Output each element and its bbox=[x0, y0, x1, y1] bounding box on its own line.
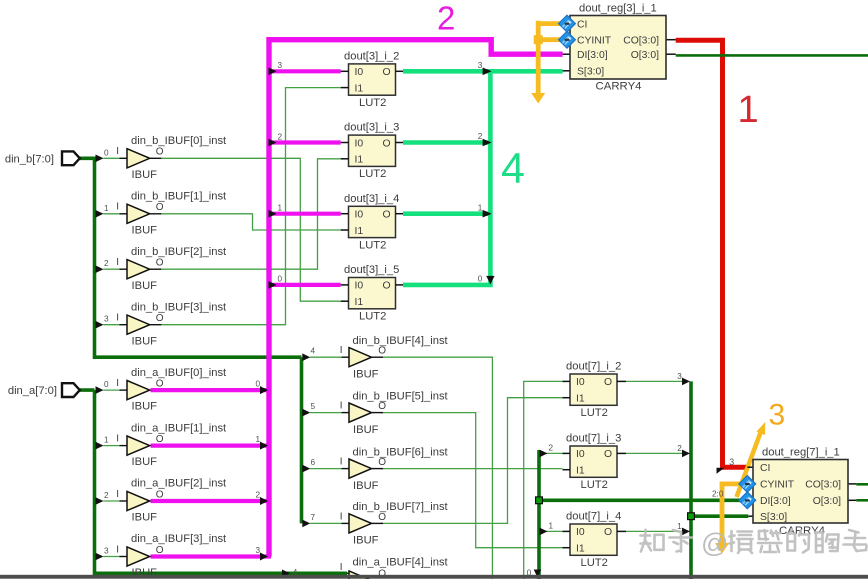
wire magenta din_a[0] IBUF output to bus bbox=[151, 388, 272, 392]
carry4 dout_reg[7]_i_1 bbox=[741, 447, 856, 538]
wire magenta din_a[3] IBUF output to bus bbox=[151, 554, 272, 558]
svg-text:O: O bbox=[378, 512, 386, 523]
svg-text:O: O bbox=[156, 434, 164, 445]
svg-text:I: I bbox=[116, 257, 119, 268]
yellow dangling arrowhead down bottom bbox=[715, 543, 729, 554]
wire din_b[6] net: IBUF[6] output to dout[7]_i_3 I1 bbox=[381, 468, 563, 470]
svg-text:I0: I0 bbox=[576, 449, 585, 460]
wire din_b[0] net: IBUF[0] output to dout[3]_i_5 I1 bbox=[161, 158, 341, 301]
svg-text:I1: I1 bbox=[576, 466, 585, 477]
LUT2 dout[7]_i_2 bbox=[563, 361, 627, 420]
junction square yellow bbox=[534, 35, 543, 44]
junction arrow din_a bus bit 0 bbox=[96, 386, 104, 394]
buffer din_b_IBUF[2]_inst bbox=[104, 246, 227, 292]
buffer din_b_IBUF[6]_inst bbox=[311, 446, 449, 491]
svg-text:din_b_IBUF[5]_inst: din_b_IBUF[5]_inst bbox=[353, 390, 449, 402]
svg-text:LUT2: LUT2 bbox=[359, 168, 386, 180]
wire DI[2:0] bus vertical from bottom bbox=[537, 450, 541, 579]
wire din_a[4] IBUF input stub along bottom bbox=[293, 572, 342, 574]
LUT2 dout[7]_i_3 bbox=[563, 433, 627, 492]
wire din_b[3] IBUF input stub bbox=[103, 324, 119, 326]
junction arrow din_a bus bit 1 bbox=[96, 442, 104, 450]
buffer din_a_IBUF[2]_inst bbox=[104, 478, 227, 524]
svg-text:dout[7]_i_2: dout[7]_i_2 bbox=[566, 361, 621, 373]
svg-text:O: O bbox=[378, 346, 386, 357]
wire dout[7]_i_4 output to S bus bbox=[626, 530, 684, 532]
svg-text:1: 1 bbox=[478, 203, 483, 212]
wire din_b bus vertical second IBUF column bbox=[300, 357, 304, 523]
svg-text:@: @ bbox=[701, 528, 728, 558]
svg-text:LUT2: LUT2 bbox=[359, 311, 386, 323]
svg-text:dout[7]_i_4: dout[7]_i_4 bbox=[566, 511, 621, 523]
wire red highlighted net: dout_reg[3]_i_1 CO to dout_reg[7]_i_1 CI bbox=[676, 40, 748, 467]
svg-text:O: O bbox=[156, 379, 164, 390]
svg-text:dout_reg[7]_i_1: dout_reg[7]_i_1 bbox=[762, 447, 840, 459]
junction arrow din_a bus bit 4 bottom bbox=[282, 570, 290, 578]
svg-text:I0: I0 bbox=[355, 138, 364, 149]
svg-text:2: 2 bbox=[256, 491, 261, 500]
junction square DI bus bbox=[536, 497, 543, 504]
wire dout[7]_i_2 output to S bus bbox=[626, 380, 684, 382]
junction arrows on magenta bus bbox=[260, 68, 277, 561]
wire spring green highlighted net: dout[3] LUT outputs to CARRY4 S input bbox=[403, 71, 563, 285]
svg-text:IBUF: IBUF bbox=[353, 368, 379, 380]
wire din_b[7] IBUF input stub bbox=[310, 522, 342, 524]
svg-text:IBUF: IBUF bbox=[132, 169, 158, 181]
svg-text:3: 3 bbox=[729, 457, 734, 467]
svg-text:din_b_IBUF[4]_inst: din_b_IBUF[4]_inst bbox=[353, 335, 449, 347]
svg-text:O: O bbox=[383, 138, 391, 149]
svg-text:IBUF: IBUF bbox=[132, 512, 158, 524]
junction arrow S bus dout[7]_i_2 output bbox=[682, 378, 690, 386]
svg-text:I1: I1 bbox=[355, 226, 364, 237]
svg-text:din_b[7:0]: din_b[7:0] bbox=[5, 153, 54, 165]
wire magenta highlighted net: din_a IBUF outputs bus to LUT I0 and CARRY4 DI bbox=[269, 40, 563, 557]
yellow dangling arrowhead down bbox=[531, 93, 545, 104]
wire magenta din_a[2] IBUF output to bus bbox=[151, 499, 272, 503]
junction arrow din_b bus bit 0 bbox=[96, 155, 104, 163]
svg-text:CI: CI bbox=[577, 19, 587, 30]
svg-text:S[3:0]: S[3:0] bbox=[760, 512, 787, 523]
svg-text:I0: I0 bbox=[355, 67, 364, 78]
wire din_a[7] net from below into dout[7]_i_2 I0 bbox=[524, 381, 563, 579]
svg-text:din_a_IBUF[3]_inst: din_a_IBUF[3]_inst bbox=[131, 533, 227, 545]
wire din_b[4] net: IBUF[4] output down to dout[7]_i_5 I1 (off-view) bbox=[381, 357, 492, 579]
svg-text:O: O bbox=[156, 313, 164, 324]
buffer din_b_IBUF[5]_inst bbox=[311, 390, 449, 435]
svg-text:din_a[7:0]: din_a[7:0] bbox=[8, 385, 57, 397]
svg-text:O: O bbox=[156, 545, 164, 556]
svg-text:5: 5 bbox=[311, 402, 316, 411]
svg-text:din_b_IBUF[7]_inst: din_b_IBUF[7]_inst bbox=[353, 501, 449, 513]
svg-text:IBUF: IBUF bbox=[353, 424, 379, 436]
svg-text:4: 4 bbox=[311, 347, 316, 356]
junction square S bus bbox=[688, 513, 695, 520]
svg-text:O: O bbox=[383, 67, 391, 78]
svg-text:O[3:0]: O[3:0] bbox=[631, 50, 659, 61]
svg-text:din_a_IBUF[4]_inst: din_a_IBUF[4]_inst bbox=[353, 557, 449, 569]
svg-text:I1: I1 bbox=[355, 155, 364, 166]
junction arrow din_b bus bit 6 bbox=[302, 465, 310, 473]
junction arrow DI bus bottom bbox=[534, 570, 542, 578]
wire branch DI bus to dout[7]_i_3 I0 bbox=[546, 452, 563, 454]
wire magenta branch to dout[3]_i_3 I0 bbox=[267, 140, 341, 144]
svg-text:1: 1 bbox=[677, 522, 682, 531]
wire magenta branch to dout[3]_i_2 I0 bbox=[267, 69, 341, 73]
svg-text:I1: I1 bbox=[576, 544, 585, 555]
input port din_a[7:0] bbox=[8, 383, 80, 397]
svg-text:IBUF: IBUF bbox=[132, 280, 158, 292]
junction arrow din_a bus bit 3 bbox=[96, 553, 104, 561]
svg-text:3: 3 bbox=[478, 61, 483, 70]
buffer din_b_IBUF[0]_inst bbox=[104, 135, 227, 181]
svg-text:O: O bbox=[156, 489, 164, 500]
svg-text:O: O bbox=[604, 527, 612, 538]
wire yellow highlighted net at dout_reg[3]_i_1 CI/CYINIT bbox=[538, 21, 560, 95]
svg-text:2: 2 bbox=[478, 132, 483, 141]
svg-text:LUT2: LUT2 bbox=[581, 479, 608, 491]
junction arrow red corner bbox=[717, 468, 725, 474]
LUT2 dout[7]_i_4 bbox=[563, 511, 627, 570]
annotation arrow 3 diagonal bbox=[737, 430, 762, 497]
buffer din_a_IBUF[0]_inst bbox=[104, 367, 227, 413]
svg-text:din_b_IBUF[0]_inst: din_b_IBUF[0]_inst bbox=[131, 135, 227, 147]
net marker diamond dout_reg[7]_i_1 CYINIT bbox=[739, 476, 756, 493]
svg-text:0: 0 bbox=[104, 148, 109, 157]
wire magenta branch to dout[3]_i_4 I0 bbox=[267, 212, 341, 216]
svg-text:1: 1 bbox=[104, 204, 109, 213]
svg-text:I: I bbox=[340, 562, 343, 573]
wire din_b[5] IBUF input stub bbox=[310, 412, 342, 414]
svg-text:I: I bbox=[340, 457, 343, 468]
svg-text:2: 2 bbox=[104, 491, 109, 500]
junction arrow S bus dout[7]_i_3 output bbox=[682, 450, 690, 458]
svg-text:dout[7]_i_3: dout[7]_i_3 bbox=[566, 433, 621, 445]
svg-text:din_b_IBUF[1]_inst: din_b_IBUF[1]_inst bbox=[131, 191, 227, 203]
svg-text:3: 3 bbox=[769, 399, 786, 432]
svg-text:O: O bbox=[604, 377, 612, 388]
buffer din_a_IBUF[4]_inst (clipped at bottom) bbox=[293, 557, 449, 579]
svg-text:din_b_IBUF[3]_inst: din_b_IBUF[3]_inst bbox=[131, 301, 227, 313]
svg-text:3: 3 bbox=[278, 61, 283, 70]
wire din_a[0] IBUF input stub bbox=[103, 389, 119, 391]
svg-text:I: I bbox=[116, 202, 119, 213]
svg-text:O[3:0]: O[3:0] bbox=[813, 496, 841, 507]
svg-text:0: 0 bbox=[104, 380, 109, 389]
svg-text:2: 2 bbox=[549, 443, 554, 452]
wire din_b[0] IBUF input stub bbox=[103, 157, 119, 159]
svg-text:CO[3:0]: CO[3:0] bbox=[805, 480, 841, 491]
svg-text:I: I bbox=[116, 313, 119, 324]
svg-text:3: 3 bbox=[104, 547, 109, 556]
svg-text:dout[3]_i_3: dout[3]_i_3 bbox=[344, 122, 399, 134]
junction arrow din_b bus bit 2 bbox=[96, 265, 104, 273]
wire din_b[4] IBUF input stub bbox=[310, 356, 342, 358]
svg-text:1: 1 bbox=[278, 204, 283, 213]
svg-text:3: 3 bbox=[104, 315, 109, 324]
svg-text:IBUF: IBUF bbox=[353, 480, 379, 492]
svg-text:IBUF: IBUF bbox=[132, 335, 158, 347]
svg-text:IBUF: IBUF bbox=[132, 456, 158, 468]
svg-text:O: O bbox=[156, 258, 164, 269]
svg-text:7: 7 bbox=[311, 513, 316, 522]
buffer din_a_IBUF[3]_inst bbox=[104, 533, 227, 579]
wire din_b[2] IBUF input stub bbox=[103, 268, 119, 270]
svg-text:I: I bbox=[116, 378, 119, 389]
svg-text:I: I bbox=[116, 544, 119, 555]
svg-text:IBUF: IBUF bbox=[132, 401, 158, 413]
wire din_b[1] net: IBUF[1] output to dout[3]_i_4 I1 bbox=[161, 214, 341, 230]
svg-text:dout[3]_i_2: dout[3]_i_2 bbox=[344, 51, 399, 63]
svg-text:2: 2 bbox=[104, 259, 109, 268]
wire O[3:0] output of dout_reg[3]_i_1 to right edge bbox=[676, 54, 868, 57]
net marker diamond dout_reg[3]_i_1 CI bbox=[559, 15, 576, 32]
pin number labels din_a to bus junctions bbox=[256, 380, 261, 555]
watermark zhihu text bbox=[641, 530, 693, 552]
junction arrow din_a bus bit 2 bbox=[96, 497, 104, 505]
svg-text:2: 2 bbox=[437, 0, 455, 37]
svg-text:3: 3 bbox=[677, 372, 682, 381]
wire din_b[2] net: IBUF[2] output to dout[3]_i_3 I1 bbox=[161, 159, 341, 269]
svg-text:I0: I0 bbox=[355, 281, 364, 292]
svg-text:LUT2: LUT2 bbox=[581, 557, 608, 569]
svg-text:CYINIT: CYINIT bbox=[577, 36, 612, 47]
svg-text:1: 1 bbox=[256, 435, 261, 444]
svg-text:1: 1 bbox=[549, 521, 554, 530]
LUT2 dout[3]_i_4 bbox=[341, 193, 403, 252]
carry4 dout_reg[3]_i_1 bbox=[559, 3, 676, 93]
svg-text:CYINIT: CYINIT bbox=[760, 480, 795, 491]
svg-text:I1: I1 bbox=[355, 83, 364, 94]
wire din_b[6] IBUF input stub bbox=[310, 468, 342, 470]
svg-text:IBUF: IBUF bbox=[353, 535, 379, 547]
svg-text:I: I bbox=[116, 146, 119, 157]
wire O[3:0] output of dout_reg[7]_i_1 to right edge bbox=[856, 499, 868, 502]
svg-text:2: 2 bbox=[677, 444, 682, 453]
wire din_a[2] IBUF input stub bbox=[103, 500, 119, 502]
svg-text:3: 3 bbox=[256, 546, 261, 555]
LUT2 dout[3]_i_2 bbox=[341, 51, 403, 110]
svg-text:I0: I0 bbox=[355, 210, 364, 221]
svg-text:CI: CI bbox=[760, 463, 770, 474]
junction arrow din_b bus bit 4 bbox=[302, 353, 310, 361]
LUT2 dout[3]_i_3 bbox=[341, 122, 403, 181]
wire S bus vertical collecting dout[7] LUT outputs bbox=[689, 381, 693, 579]
svg-text:I: I bbox=[116, 433, 119, 444]
svg-text:dout[3]_i_4: dout[3]_i_4 bbox=[344, 193, 399, 205]
svg-text:din_a_IBUF[1]_inst: din_a_IBUF[1]_inst bbox=[131, 422, 227, 434]
svg-text:I1: I1 bbox=[355, 297, 364, 308]
junction arrow S bus dout[7]_i_4 output bbox=[682, 528, 690, 536]
svg-text:LUT2: LUT2 bbox=[359, 239, 386, 251]
svg-text:I: I bbox=[340, 401, 343, 412]
wire dout[7]_i_3 output to S bus bbox=[626, 452, 684, 454]
wire din_b[3] net: IBUF[3] output to dout[3]_i_2 I1 bbox=[161, 88, 341, 325]
wire yellow highlighted net at dout_reg[7]_i_1 CYINIT bbox=[722, 484, 745, 546]
svg-text:IBUF: IBUF bbox=[132, 224, 158, 236]
svg-text:CO[3:0]: CO[3:0] bbox=[623, 36, 659, 47]
svg-text:din_a_IBUF[2]_inst: din_a_IBUF[2]_inst bbox=[131, 478, 227, 490]
buffer din_b_IBUF[3]_inst bbox=[104, 301, 227, 347]
buffer din_b_IBUF[4]_inst bbox=[311, 335, 449, 380]
svg-text:I1: I1 bbox=[576, 394, 585, 405]
svg-text:0: 0 bbox=[478, 275, 483, 284]
svg-text:O: O bbox=[378, 457, 386, 468]
svg-text:DI[3:0]: DI[3:0] bbox=[577, 50, 608, 61]
net marker diamond dout_reg[7]_i_1 DI bbox=[739, 492, 756, 509]
svg-text:O: O bbox=[383, 281, 391, 292]
svg-text:O: O bbox=[156, 147, 164, 158]
svg-text:dout_reg[3]_i_1: dout_reg[3]_i_1 bbox=[579, 3, 657, 15]
svg-text:S[3:0]: S[3:0] bbox=[577, 67, 604, 78]
svg-text:LUT2: LUT2 bbox=[581, 407, 608, 419]
wire magenta branch to dout[3]_i_5 I0 bbox=[267, 283, 341, 287]
pin number labels S bus bbox=[677, 372, 682, 531]
wire S bus horizontal into dout_reg[7]_i_1 S bbox=[691, 514, 748, 518]
svg-text:0: 0 bbox=[278, 275, 283, 284]
svg-text:LUT2: LUT2 bbox=[359, 97, 386, 109]
wire DI[2:0] bus horizontal into dout_reg[7]_i_1 DI bbox=[539, 498, 747, 502]
wire din_a[1] IBUF input stub bbox=[103, 445, 119, 447]
svg-text:O: O bbox=[604, 449, 612, 460]
svg-text:O: O bbox=[156, 202, 164, 213]
wire din_b[7:0] port bus from port to IBUF column then to second column bbox=[80, 158, 302, 357]
svg-text:4: 4 bbox=[501, 145, 525, 193]
pin number labels DI bus bbox=[527, 443, 554, 577]
svg-text:CARRY4: CARRY4 bbox=[596, 81, 642, 93]
svg-text:I0: I0 bbox=[576, 527, 585, 538]
input port din_b[7:0] bbox=[5, 151, 80, 165]
wire din_b[1] IBUF input stub bbox=[103, 213, 119, 215]
svg-text:0: 0 bbox=[256, 380, 261, 389]
pin number labels magenta branches bbox=[278, 61, 283, 284]
buffer din_b_IBUF[7]_inst bbox=[311, 501, 449, 546]
wire din_a[7:0] port bus vertical bbox=[80, 390, 347, 573]
wire din_b[7] net: IBUF[7] output to dout[7]_i_2 I1 bbox=[381, 398, 563, 524]
junction arrows on spring green bus bbox=[483, 68, 495, 285]
svg-text:DI[3:0]: DI[3:0] bbox=[760, 496, 791, 507]
svg-text:dout[3]_i_5: dout[3]_i_5 bbox=[344, 264, 399, 276]
junction arrow din_b bus bit 7 bbox=[302, 520, 310, 528]
junction arrow DI bus to dout[7]_i_3 I0 bbox=[540, 450, 548, 458]
wire din_a[3] IBUF input stub bbox=[103, 556, 119, 558]
svg-text:6: 6 bbox=[311, 458, 316, 467]
svg-text:I: I bbox=[340, 511, 343, 522]
wire din_b[5] net: IBUF[5] output to dout[7]_i_4 I1 bbox=[381, 413, 563, 548]
pin number labels spring green bus bbox=[478, 61, 483, 284]
junction arrow din_b bus bit 3 bbox=[96, 321, 104, 329]
svg-text:din_a_IBUF[0]_inst: din_a_IBUF[0]_inst bbox=[131, 367, 227, 379]
svg-text:I0: I0 bbox=[576, 377, 585, 388]
svg-text:O: O bbox=[378, 401, 386, 412]
svg-text:O: O bbox=[383, 210, 391, 221]
wire magenta din_a[1] IBUF output to bus bbox=[151, 444, 272, 448]
svg-text:I: I bbox=[340, 345, 343, 356]
svg-text:2: 2 bbox=[278, 132, 283, 141]
svg-text:I: I bbox=[116, 489, 119, 500]
svg-text:din_b_IBUF[2]_inst: din_b_IBUF[2]_inst bbox=[131, 246, 227, 258]
svg-text:1: 1 bbox=[738, 89, 759, 131]
buffer din_a_IBUF[1]_inst bbox=[104, 422, 227, 468]
wire CO[3:0] output of dout_reg[7]_i_1 to right edge bbox=[856, 483, 868, 486]
LUT2 dout[3]_i_5 bbox=[341, 264, 403, 323]
svg-text:1: 1 bbox=[104, 436, 109, 445]
bottom pane edge line bbox=[0, 575, 868, 579]
junction arrow din_b bus bit 5 bbox=[302, 409, 310, 417]
svg-text:din_b_IBUF[6]_inst: din_b_IBUF[6]_inst bbox=[353, 446, 449, 458]
net marker diamond dout_reg[3]_i_1 CYINIT bbox=[559, 31, 576, 48]
junction arrow din_b bus bit 1 bbox=[96, 210, 104, 218]
buffer din_b_IBUF[1]_inst bbox=[104, 191, 227, 237]
wire branch DI bus to dout[7]_i_4 I0 bbox=[546, 530, 563, 532]
junction arrow DI bus to dout[7]_i_4 I0 bbox=[540, 528, 548, 536]
svg-text:2:0: 2:0 bbox=[712, 489, 724, 498]
